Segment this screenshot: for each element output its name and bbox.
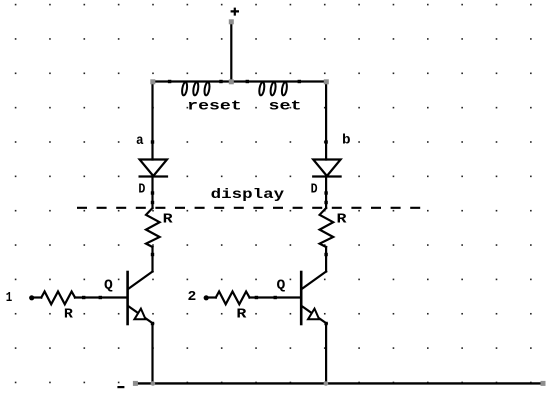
wire [151, 177, 153, 209]
node - terminal end [133, 381, 138, 386]
pin Q1 emitter [151, 322, 154, 325]
pin resistor input1 right [82, 296, 85, 299]
svg-text:Q: Q [104, 278, 113, 294]
svg-text:R: R [337, 211, 348, 227]
pin diode a cathode [151, 191, 154, 194]
junction bottom rail right [324, 381, 329, 386]
pin set left [246, 80, 249, 83]
wire top rail [153, 80, 326, 82]
wire [325, 177, 327, 209]
resistor R (right collector) [320, 208, 334, 247]
svg-text:b: b [342, 133, 351, 149]
svg-text:D: D [311, 182, 318, 198]
transistor Q2 [301, 272, 326, 325]
minus terminal [117, 386, 124, 388]
svg-text:display: display [211, 187, 285, 203]
svg-text:1: 1 [6, 290, 13, 306]
pin Q2 emitter [324, 322, 327, 325]
terminal input 2 [204, 295, 209, 300]
resistor R (input 2) [216, 292, 250, 305]
wire base 1 [75, 296, 127, 298]
svg-text:R: R [163, 211, 174, 227]
node top rail left corner [150, 79, 155, 84]
pin Q2 base [274, 296, 277, 299]
pin diode b cathode [324, 191, 327, 194]
wire bottom rail [135, 382, 543, 384]
pin resistor input2 right [255, 296, 258, 299]
wire emitter down [151, 324, 153, 384]
node top rail center [229, 79, 234, 84]
label + [231, 8, 239, 16]
node bottom rail right end [541, 381, 546, 386]
wire base 2 [250, 296, 301, 298]
terminal input 1 [29, 295, 34, 300]
pin Q2 collector [324, 253, 327, 256]
wire left branch upper [151, 82, 153, 160]
svg-text:D: D [138, 182, 145, 198]
pin resistor left top [151, 201, 154, 204]
svg-text:Q: Q [277, 278, 286, 294]
pin set right [298, 80, 301, 83]
wire input 2 [208, 296, 216, 298]
svg-text:R: R [64, 307, 74, 323]
wire input 1 [33, 296, 41, 298]
wire [151, 247, 153, 272]
node + terminal [229, 19, 234, 24]
diode D (LED b) [313, 160, 340, 177]
wire + lead [230, 22, 232, 82]
dashed display line [77, 207, 423, 209]
svg-text:set: set [269, 99, 302, 115]
transistor Q1 [128, 272, 153, 325]
svg-text:R: R [236, 307, 247, 323]
pin diode a anode [151, 140, 154, 143]
inductor reset [181, 82, 210, 96]
pin reset right [219, 80, 222, 83]
resistor R (left collector) [146, 208, 160, 247]
resistor R (input 1) [41, 292, 75, 305]
wire [325, 247, 327, 272]
pin Q1 base [99, 296, 102, 299]
pin dots [29, 80, 328, 325]
svg-text:2: 2 [188, 289, 197, 305]
node top rail right corner [324, 79, 329, 84]
pin reset left [168, 80, 171, 83]
wire emitter down [325, 324, 327, 384]
junction bottom rail left [151, 381, 156, 386]
pin diode b anode [324, 140, 327, 143]
pin resistor right top [324, 201, 327, 204]
svg-text:a: a [136, 133, 144, 149]
wire right branch upper [325, 82, 327, 160]
svg-text:reset: reset [187, 99, 242, 115]
diode D (LED a) [140, 160, 167, 177]
inductor set [258, 82, 287, 96]
pin Q1 collector [151, 253, 154, 256]
